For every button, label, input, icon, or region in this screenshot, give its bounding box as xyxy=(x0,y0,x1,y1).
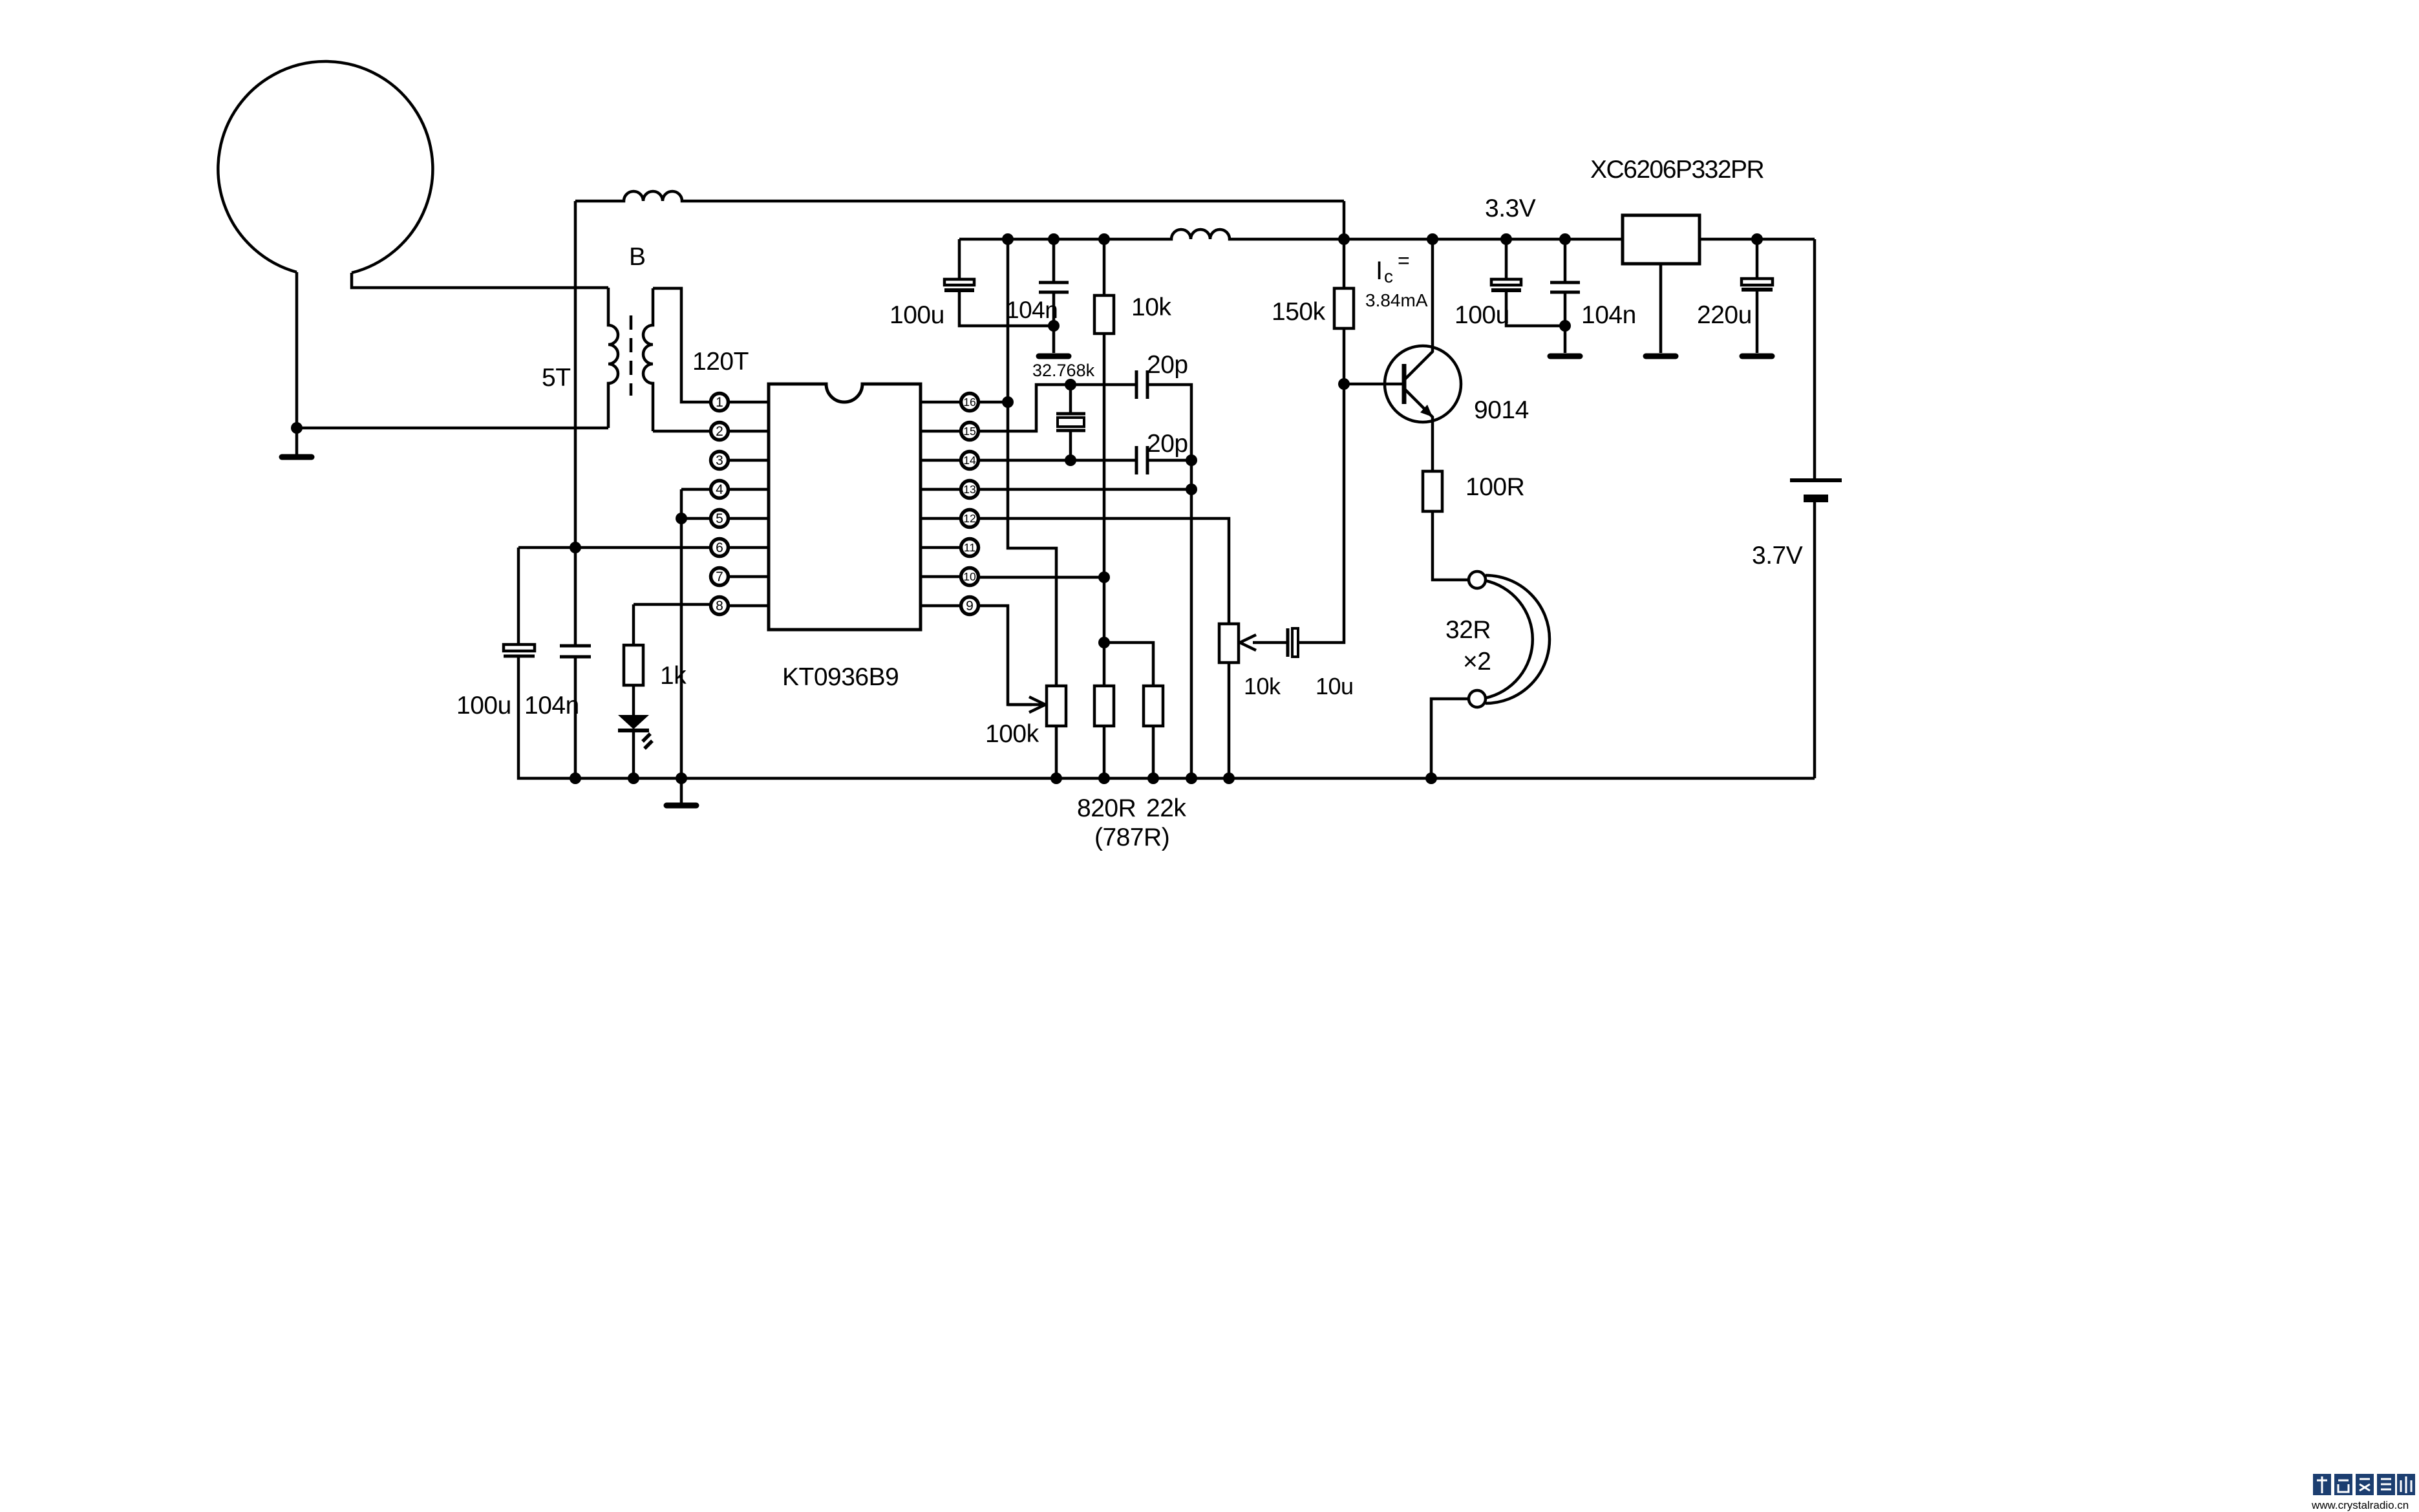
svg-text:820R: 820R xyxy=(1077,794,1136,822)
svg-text:100R: 100R xyxy=(1465,473,1524,501)
svg-text:10k: 10k xyxy=(1244,673,1281,699)
svg-text:100u: 100u xyxy=(456,692,511,719)
svg-text:5: 5 xyxy=(716,511,723,526)
svg-text:=: = xyxy=(1398,249,1410,272)
svg-text:9014: 9014 xyxy=(1474,396,1529,424)
svg-text:c: c xyxy=(1384,266,1393,286)
svg-text:×2: ×2 xyxy=(1463,648,1491,676)
svg-text:3: 3 xyxy=(716,453,723,468)
svg-text:B: B xyxy=(629,243,646,271)
svg-text:100u: 100u xyxy=(1455,301,1509,329)
svg-text:15: 15 xyxy=(963,425,975,438)
svg-text:10u: 10u xyxy=(1316,673,1354,699)
svg-text:1k: 1k xyxy=(660,662,687,690)
svg-text:7: 7 xyxy=(716,570,723,584)
svg-text:www.crystalradio.cn: www.crystalradio.cn xyxy=(2311,1499,2409,1511)
svg-text:22k: 22k xyxy=(1146,794,1186,822)
svg-text:(787R): (787R) xyxy=(1094,824,1169,851)
svg-text:5T: 5T xyxy=(542,364,571,392)
svg-text:104n: 104n xyxy=(1006,297,1058,323)
svg-text:12: 12 xyxy=(963,512,975,525)
svg-text:8: 8 xyxy=(716,599,723,613)
svg-text:16: 16 xyxy=(963,396,975,409)
svg-text:10k: 10k xyxy=(1131,293,1171,321)
svg-text:10: 10 xyxy=(963,570,976,583)
svg-text:32.768k: 32.768k xyxy=(1032,361,1095,380)
svg-text:220u: 220u xyxy=(1697,301,1752,329)
svg-text:20p: 20p xyxy=(1147,430,1188,458)
svg-text:150k: 150k xyxy=(1272,298,1326,326)
svg-text:120T: 120T xyxy=(692,348,749,376)
svg-text:2: 2 xyxy=(716,424,723,439)
svg-text:13: 13 xyxy=(963,483,975,496)
svg-text:I: I xyxy=(1376,257,1383,285)
svg-text:104n: 104n xyxy=(524,692,579,719)
svg-text:9: 9 xyxy=(966,599,974,613)
svg-text:100k: 100k xyxy=(985,720,1039,748)
svg-text:14: 14 xyxy=(963,454,976,467)
svg-text:KT0936B9: KT0936B9 xyxy=(782,663,899,691)
svg-text:100u: 100u xyxy=(890,301,944,329)
svg-text:20p: 20p xyxy=(1147,351,1188,379)
svg-text:11: 11 xyxy=(964,541,975,554)
svg-text:4: 4 xyxy=(716,482,723,497)
svg-text:3.7V: 3.7V xyxy=(1752,542,1803,570)
svg-text:1: 1 xyxy=(716,395,723,410)
svg-text:3.84mA: 3.84mA xyxy=(1365,290,1428,310)
svg-text:32R: 32R xyxy=(1445,616,1491,644)
svg-text:3.3V: 3.3V xyxy=(1485,195,1536,222)
svg-text:XC6206P332PR: XC6206P332PR xyxy=(1590,156,1764,184)
svg-text:104n: 104n xyxy=(1581,301,1636,329)
svg-text:6: 6 xyxy=(716,540,723,555)
